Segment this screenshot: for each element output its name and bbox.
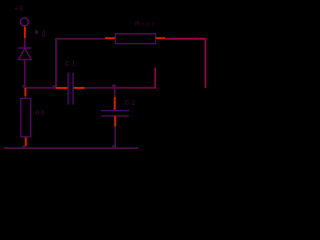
wire mid horizontal crimson segment to amp input (126, 87, 156, 89)
wire purple from junction down to C2 (114, 88, 116, 98)
capacitor C1 left plate (67, 73, 69, 105)
capacitor C2 top plate (101, 110, 129, 112)
wire purple above photodiode (24, 38, 26, 48)
junction node R3 at ground rail (22, 145, 26, 149)
svg-text:C: C (65, 61, 70, 68)
wire mid horizontal left segment (24, 87, 55, 89)
wire crimson right vertical to amp output (204, 39, 206, 88)
wire top rail purple left segment (55, 38, 105, 40)
svg-text:с: с (147, 22, 150, 28)
wire red out of Roc right (156, 37, 165, 39)
photodiode VD cathode bar (18, 47, 31, 49)
label C1 (65, 61, 76, 68)
capacitor C2 bottom plate (101, 115, 129, 117)
wire purple stub above R3 (24, 96, 26, 99)
junction node C2 at ground rail (112, 145, 116, 149)
svg-text:о: о (142, 22, 145, 28)
wire red out of C1 right plate (74, 87, 85, 89)
label +E supply (14, 6, 23, 13)
wire red from terminal to photodiode (24, 27, 26, 39)
junction node at C2 tap (112, 84, 116, 88)
svg-text:R: R (135, 21, 140, 28)
junction node left mid (23, 84, 27, 88)
wire red down to C2 top plate (114, 97, 116, 110)
label R3 (35, 110, 44, 117)
wire crimson riser to amplifier input (154, 68, 156, 89)
resistor Roc body (115, 34, 155, 44)
resistor R3 body (21, 98, 31, 136)
wire red into C1 left plate (56, 87, 68, 89)
junction node at vertical feedback tap (52, 85, 56, 89)
wire red from mid junction down to R3 (24, 88, 26, 97)
label FD photodiode (35, 30, 45, 39)
photodiode VD triangle (18, 48, 31, 59)
wire top rail crimson right segment (165, 38, 205, 40)
svg-text:R: R (35, 110, 40, 117)
capacitor C1 right plate (72, 73, 74, 105)
wire red into Roc left (105, 37, 115, 39)
svg-text:Д: Д (42, 30, 46, 38)
label C2 (125, 100, 136, 107)
svg-text:C: C (125, 100, 130, 107)
wire left vertical from top rail to mid wire (55, 38, 57, 86)
svg-text:+: + (14, 6, 18, 13)
wire purple from C2 to ground rail (114, 127, 116, 147)
svg-text:3: 3 (41, 110, 45, 117)
wire red below R3 (25, 138, 27, 147)
wire mid horizontal purple segment (85, 87, 127, 89)
wire purple below photodiode (24, 60, 26, 87)
terminal circle +E (21, 18, 29, 26)
label Roc (135, 21, 155, 28)
svg-text:с: с (152, 22, 155, 28)
wire red below C2 (114, 116, 116, 126)
wire ground rail bottom (4, 147, 139, 149)
svg-text:2: 2 (132, 100, 136, 107)
svg-text:E: E (20, 6, 24, 13)
svg-text:1: 1 (72, 61, 76, 68)
